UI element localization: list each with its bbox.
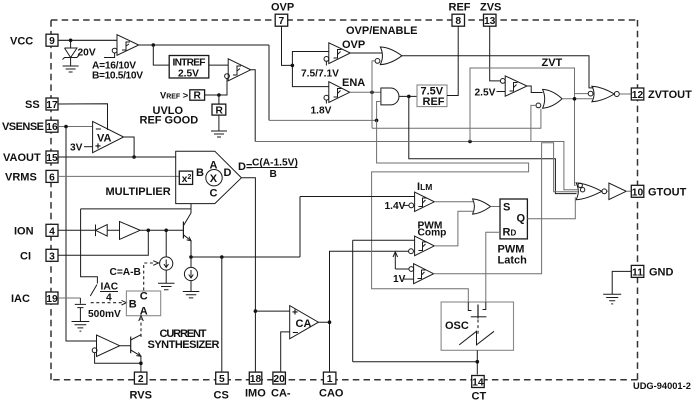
block INTREF 2.5V [169, 56, 209, 80]
wire REF pin to 7.5V REF block [447, 26, 458, 95]
node ENA branch [370, 91, 374, 95]
svg-text:CA-: CA- [271, 388, 291, 400]
svg-text:INTREF: INTREF [173, 58, 206, 69]
wire CS up to emitter line [221, 257, 223, 372]
comparator ILM 1.4V [385, 192, 435, 212]
wire 1V comp out to GTOUT gate [434, 143, 578, 274]
current source 2 [184, 267, 197, 291]
buffer GTOUT driver [609, 183, 626, 200]
wire UVLO snake to OSC enable [372, 120, 529, 302]
diode (ION) [96, 225, 120, 237]
wire OSC clock to latch RD [486, 232, 500, 302]
svg-text:RVS: RVS [130, 390, 152, 401]
pin 19 IAC [11, 292, 58, 305]
wire ENA gating to ZVT or-gate bottom [372, 109, 541, 129]
wire IMO node to CA+ [255, 310, 289, 312]
node IMO to CA+ [254, 309, 258, 313]
svg-text:ZVS: ZVS [480, 2, 501, 14]
pin 17 SS [25, 98, 58, 111]
wire VCC to UVLO comparator [58, 39, 117, 41]
svg-text:D: D [224, 167, 232, 179]
svg-text:REF GOOD: REF GOOD [140, 115, 199, 127]
wire VSENSE down to current synthesizer buffer [66, 127, 97, 342]
wire OSC to CT pin [476, 350, 478, 374]
node R divider [217, 93, 221, 97]
wire ramp line to CT node [353, 361, 478, 363]
comparator REF GOOD [225, 59, 251, 81]
wire rail up and over to output gates [470, 68, 588, 185]
ground (current source 1) [158, 283, 175, 289]
node Q1 emitter [189, 255, 193, 259]
multiplier block outline [176, 151, 242, 203]
wire nor out to pin 12 [619, 93, 631, 95]
wire CI up to ION node [58, 230, 148, 255]
block OSC [441, 302, 513, 350]
svg-text:RD: RD [503, 227, 517, 239]
svg-text:2: 2 [138, 374, 144, 385]
svg-text:C: C [140, 291, 148, 303]
svg-text:R: R [216, 105, 224, 116]
svg-text:UDG-94001-2: UDG-94001-2 [633, 381, 691, 391]
wire GND pin to ground [612, 271, 631, 294]
wire AND staircase to GTOUT gate [409, 96, 577, 193]
svg-text:MULTIPLIER: MULTIPLIER [106, 186, 171, 198]
node UVLO out / INTREF branch [152, 43, 156, 47]
svg-text:ZVT: ZVT [542, 57, 563, 69]
comparator UVLO [92, 35, 143, 82]
svg-text:13: 13 [484, 16, 496, 27]
comparator ZVT 2.5V [475, 76, 528, 99]
node CI junction [147, 229, 151, 233]
svg-text:VA: VA [97, 133, 112, 145]
svg-text:OSC: OSC [445, 320, 469, 332]
svg-text:5: 5 [219, 374, 225, 385]
pin 1 CAO [319, 372, 344, 399]
op-amp VA [93, 121, 124, 152]
wire 3V to VA + [84, 146, 93, 148]
wire ramp to PWM comp + input [353, 240, 415, 361]
svg-text:17: 17 [46, 100, 58, 111]
svg-text:6: 6 [49, 172, 55, 183]
svg-text:C(A-1.5V): C(A-1.5V) [252, 158, 298, 169]
svg-text:7: 7 [279, 16, 285, 27]
wire SS to VA [58, 104, 108, 130]
svg-text:4: 4 [49, 226, 55, 237]
wire ZVT or bubble to REF GOOD line [531, 105, 536, 141]
svg-text:ENA: ENA [342, 77, 365, 89]
pin 20 CA- [271, 372, 291, 399]
wire to INTREF [153, 45, 169, 65]
wire multiplier D output to IMO line [241, 178, 255, 374]
wire VA output to VAOUT line [124, 137, 135, 157]
svg-text:10: 10 [632, 187, 644, 198]
wire emitter line to ILM comparator [300, 196, 415, 198]
node REFGOOD rail branch [468, 140, 472, 144]
dashed control C to current source 1 [144, 263, 154, 290]
comparator PWM [409, 236, 435, 256]
svg-text:GTOUT: GTOUT [648, 186, 687, 198]
svg-text:18: 18 [250, 374, 262, 385]
svg-text:X: X [210, 173, 218, 185]
wire node to current source 1 [165, 230, 167, 257]
svg-text:CS: CS [214, 390, 229, 401]
pin 9 VCC [10, 34, 58, 47]
svg-text:CA: CA [296, 318, 312, 330]
svg-text:3V: 3V [70, 143, 83, 154]
or-gate U5 (ZVT) [536, 89, 562, 108]
svg-text:4: 4 [106, 293, 112, 304]
nor-gate U6 (ZVTOUT) [588, 86, 619, 102]
pin 12 ZVTOUT [631, 88, 692, 101]
comparator ENA 1.8V [311, 77, 366, 117]
svg-text:C=A-B: C=A-B [110, 267, 141, 278]
svg-text:2.5V: 2.5V [475, 88, 496, 99]
wire REF GOOD line [255, 142, 577, 190]
node UVLO-AND [375, 119, 379, 123]
latch PWM (S R Q) [500, 199, 527, 239]
svg-text:OVP/ENABLE: OVP/ENABLE [346, 25, 418, 37]
wire ION [58, 229, 95, 231]
wire or out to latch S [491, 206, 500, 208]
resistor R (upper) [190, 90, 205, 102]
svg-text:2.5V: 2.5V [178, 69, 199, 80]
svg-text:15: 15 [46, 153, 58, 164]
pin 14 CT [472, 376, 487, 401]
svg-text:GND: GND [649, 266, 674, 278]
squarer x^2 block [179, 171, 192, 185]
svg-text:1: 1 [327, 374, 333, 385]
node VCC-zener junction [69, 39, 73, 43]
node OVP pin branch [291, 64, 295, 68]
switch IAC/4 [81, 209, 119, 304]
or-gate U8 (PWM set) [473, 199, 491, 214]
wire ZVT or output [562, 98, 592, 100]
node AND out branch [407, 95, 411, 99]
wire OVP comp out to OR [350, 52, 382, 54]
pin 5 CS [214, 372, 229, 401]
current source 1 [160, 257, 173, 283]
svg-text:C: C [210, 188, 218, 200]
transistor Q2 (synthesizer) [120, 335, 141, 372]
svg-text:CI: CI [20, 250, 31, 262]
svg-text:VRMS: VRMS [5, 171, 37, 183]
wire AND output to 7.5V REF [399, 95, 417, 97]
ground (500mV) [72, 322, 90, 332]
wire IAC [58, 297, 80, 299]
svg-text:IAC: IAC [101, 282, 119, 293]
IC boundary dashed border [51, 20, 638, 380]
svg-text:+: + [292, 308, 298, 319]
wire ZVS pin to ZVT comparator [490, 26, 501, 81]
svg-text:REF: REF [449, 2, 471, 14]
wire nor to buffer to pin 10 [607, 190, 632, 192]
svg-text:1.4V: 1.4V [385, 201, 406, 212]
pin 13 ZVS [480, 2, 501, 28]
dashed wire switch to synthesizer B [91, 302, 123, 304]
wire ILM out to or-gate [434, 201, 473, 203]
svg-text:1V: 1V [393, 274, 406, 285]
wire CA- up to CA inverting input [281, 332, 290, 372]
multiplier circle X [206, 170, 222, 186]
node current-source junction [164, 229, 168, 233]
svg-text:CAO: CAO [319, 388, 344, 400]
node CS junction [220, 255, 224, 259]
wire VSENSE to VA inverting input [58, 126, 93, 128]
svg-text:IMO: IMO [245, 388, 266, 400]
svg-text:S: S [503, 202, 510, 214]
pin 7 OVP [271, 2, 294, 28]
formula D = C(A-1.5V)/B [238, 158, 298, 180]
svg-text:SS: SS [25, 99, 40, 111]
pin 8 REF [449, 2, 471, 28]
svg-text:OVP: OVP [342, 39, 365, 51]
ground (R divider) [211, 131, 227, 137]
wire VAOUT to multiplier A [58, 156, 176, 158]
buffer (synthesizer) [92, 335, 120, 357]
ground (GND pin) [603, 294, 621, 304]
svg-text:Latch: Latch [498, 255, 528, 267]
block 7.5V REF [417, 85, 447, 108]
wire arrow node to 1V comp bubble [395, 268, 409, 270]
svg-text:11: 11 [632, 267, 643, 278]
buffer amp (ION) [120, 222, 141, 240]
source 500mV [75, 298, 121, 322]
wire UVLO line to AND lower input [269, 102, 381, 121]
node VSENSE branch [64, 125, 68, 129]
nor-gate U7 (GTOUT) [576, 183, 607, 200]
comparator 1V [393, 264, 434, 285]
svg-text:1.8V: 1.8V [311, 106, 332, 117]
svg-text:Comp: Comp [418, 227, 447, 238]
svg-text:14: 14 [472, 378, 484, 389]
wire INTREF to REFGOOD comparator [209, 64, 228, 66]
svg-text:VSENSE: VSENSE [2, 121, 44, 133]
svg-text:IAC: IAC [11, 293, 30, 305]
svg-text:OVP: OVP [271, 2, 294, 14]
svg-text:8: 8 [455, 16, 461, 27]
wire Q output to GTOUT gate bottom [527, 197, 575, 219]
svg-text:B: B [270, 169, 277, 180]
op-amp CA [290, 306, 319, 339]
node CAO [328, 320, 332, 324]
wire emitter to current source 2 [190, 257, 192, 267]
svg-text:500mV: 500mV [88, 309, 121, 320]
svg-text:B: B [196, 167, 204, 179]
wire OVP latch OR output to ZVTOUT nor [402, 56, 594, 88]
svg-text:ZVTOUT: ZVTOUT [648, 89, 692, 101]
wire buffer to transistor base [140, 229, 183, 231]
svg-text:VAOUT: VAOUT [3, 152, 41, 164]
wire emitter line to ILM riser [191, 197, 300, 258]
svg-text:Q: Q [517, 213, 526, 225]
ground (zener) [63, 66, 79, 72]
zener diode 20V [63, 40, 96, 66]
pin 18 IMO [245, 372, 266, 399]
node feedback emitter junction [139, 361, 143, 365]
svg-text:9: 9 [49, 36, 55, 47]
pin 3 CI [20, 249, 58, 262]
resistor R (lower) [212, 95, 226, 131]
wire feedback bubble to emitter [95, 353, 141, 364]
svg-text:12: 12 [632, 90, 644, 101]
svg-text:19: 19 [46, 294, 58, 305]
and-gate U4 (REF enable) [381, 88, 399, 105]
node CT ramp [476, 360, 480, 364]
wire UVLO enable down [268, 45, 270, 120]
svg-text:20: 20 [273, 374, 285, 385]
wire ENA node up to OR bubble and down [372, 61, 375, 128]
svg-text:CT: CT [472, 391, 487, 401]
svg-text:7.5/7.1V: 7.5/7.1V [301, 69, 339, 80]
svg-text:B=10.5/10V: B=10.5/10V [92, 71, 143, 82]
wire ZVT comp out to or-gate [527, 86, 543, 93]
pin 6 VRMS [5, 170, 58, 183]
wire OVP pin to comparators [282, 26, 329, 86]
node ZVT out / rail [573, 97, 577, 101]
wire VRMS to squarer [58, 175, 179, 177]
svg-text:B: B [129, 299, 137, 311]
wire R to comparator bubble [205, 79, 227, 96]
or-gate U3 (OVP latch) [375, 47, 402, 65]
svg-text:20V: 20V [78, 48, 96, 59]
pin 16 VSENSE [2, 120, 58, 133]
node VA out on VAOUT line [132, 155, 136, 159]
svg-text:ILM: ILM [417, 181, 432, 193]
dashed wire transistor to synthesizer A [140, 319, 142, 337]
wire REFGOOD output down [251, 70, 256, 142]
pin 4 ION [14, 224, 58, 237]
transistor Q1 (synthesizer mirror) [183, 209, 191, 257]
wire PWM comp out to or-gate [434, 211, 473, 246]
svg-text:REF: REF [423, 96, 445, 108]
osc internals (cap and ramp) [459, 302, 494, 345]
pin 10 GTOUT [631, 185, 686, 198]
wire ENA output to AND [350, 91, 381, 93]
wire CA output / CAO feedback [318, 251, 408, 372]
svg-text:ION: ION [14, 225, 34, 237]
svg-text:R: R [194, 91, 202, 102]
svg-text:3: 3 [49, 251, 55, 262]
pin 2 RVS [130, 372, 152, 401]
svg-text:D=: D= [238, 161, 252, 173]
ground (current source 2) [183, 292, 200, 298]
svg-text:16: 16 [46, 122, 58, 133]
arrow ramp sum [394, 253, 396, 269]
svg-text:SYNTHESIZER: SYNTHESIZER [148, 339, 220, 351]
current synthesizer block [126, 291, 160, 318]
wire multiplier C line [81, 204, 191, 209]
svg-text:VCC: VCC [10, 36, 33, 48]
pin 11 GND [631, 265, 673, 278]
pin 15 VAOUT [3, 151, 58, 164]
comparator OVP 7.5/7.1V [301, 39, 365, 80]
wire UVLO output [139, 44, 269, 46]
